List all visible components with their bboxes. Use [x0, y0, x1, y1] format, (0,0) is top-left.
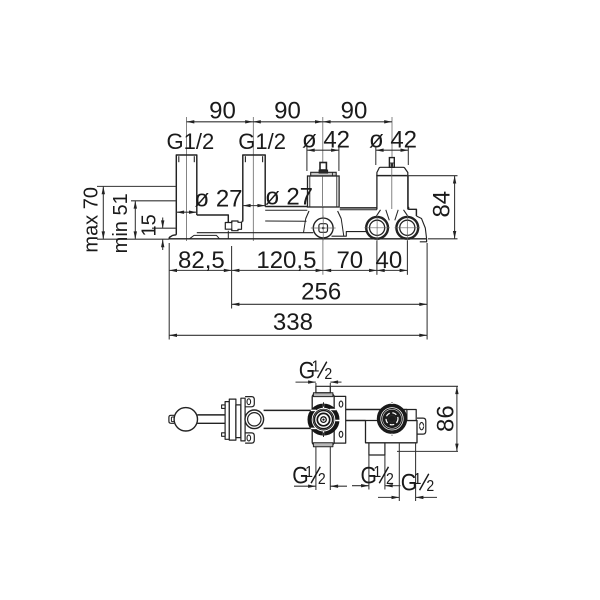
svg-text:ø 42: ø 42	[369, 126, 417, 153]
skirt cartridge2	[375, 210, 381, 219]
svg-text:2: 2	[426, 477, 434, 495]
dim o27 no.2 arrows	[243, 205, 265, 207]
label G1/2 bottom-left	[292, 462, 325, 489]
dim o42 no.1	[306, 146, 308, 171]
cartridge ring (big, bottom view)	[310, 402, 340, 437]
svg-text:1: 1	[312, 358, 320, 376]
leaders G1/2 bottom-left	[315, 447, 317, 490]
stem F tube	[264, 409, 313, 411]
svg-text:1: 1	[373, 463, 381, 481]
dim 90 span2	[253, 121, 323, 123]
svg-text:max 70: max 70	[81, 187, 103, 253]
dim 256	[232, 303, 428, 305]
labels top view	[81, 98, 456, 337]
dim 86	[456, 386, 458, 451]
svg-text:ø 27: ø 27	[265, 184, 313, 211]
body bottom step between circle1 and circle2	[332, 232, 367, 237]
svg-text:90: 90	[209, 98, 236, 125]
hex nipple detail	[225, 221, 241, 231]
svg-text:256: 256	[301, 278, 341, 305]
svg-text:90: 90	[274, 98, 301, 125]
dim 15 outside arrows	[162, 218, 164, 229]
svg-text:90: 90	[341, 98, 368, 125]
body bar left section top edge	[197, 215, 229, 223]
circle/outlet with square broach (middle outlet)	[311, 216, 336, 241]
skirt cartridge1	[306, 211, 309, 219]
cartridge U1 (left, ceramic cartridge side view)	[308, 163, 340, 208]
dim 40	[377, 269, 408, 271]
svg-text:338: 338	[273, 309, 313, 336]
ext line wall bottom	[97, 238, 169, 240]
svg-text:86: 86	[433, 405, 460, 432]
dim 90 span1	[187, 121, 254, 123]
svg-text:84: 84	[428, 191, 455, 218]
svg-text:15: 15	[139, 214, 161, 236]
ext line 15 top	[152, 227, 176, 229]
centerline pipe2	[252, 117, 254, 241]
svg-text:G1/2: G1/2	[238, 129, 286, 154]
ear bottom with slot	[245, 433, 254, 443]
ext line min51 top	[131, 200, 176, 202]
housing K upper-right block	[407, 410, 416, 421]
bottom step notch	[190, 235, 220, 238]
inlet ring no.2 (40 dim)	[395, 215, 421, 241]
dim 70	[323, 269, 377, 271]
svg-text:40: 40	[376, 247, 403, 274]
ext 84 top	[407, 175, 458, 177]
pipe G1/2 no.1	[176, 155, 197, 235]
ext line max70 top	[97, 185, 176, 187]
ext 84 bottom	[428, 238, 458, 240]
svg-text:min 51: min 51	[110, 193, 132, 253]
dim o27 no.1 arrows	[176, 211, 197, 213]
ear M with slot	[417, 418, 426, 434]
dim o42 no.2	[375, 146, 377, 165]
bar J	[346, 409, 407, 411]
ear top with slot	[245, 397, 254, 407]
dim 90 span3	[323, 121, 392, 123]
bracket H with slots	[334, 396, 346, 443]
port tab 1	[369, 443, 385, 455]
plate B	[229, 399, 236, 440]
lever stem	[197, 414, 225, 416]
body bar lower edge left of circle1	[197, 232, 313, 234]
svg-text:ø 42: ø 42	[302, 126, 350, 153]
dim 338	[169, 334, 427, 336]
svg-text:70: 70	[336, 247, 363, 274]
svg-text:1: 1	[305, 463, 313, 481]
svg-text:2: 2	[386, 470, 394, 488]
connection ring E	[245, 410, 264, 429]
pipe G1/2 no.2	[243, 155, 265, 222]
right wing plate	[406, 176, 408, 208]
lever ball	[174, 408, 197, 431]
connector C	[236, 405, 241, 438]
dim 120,5	[232, 269, 324, 271]
dim G1/2 top: ext + converging arrows	[315, 383, 317, 388]
body bottom outline	[169, 235, 427, 239]
housing K lower block	[366, 421, 418, 443]
G half labels bottom view	[292, 357, 459, 496]
dim min51	[134, 201, 136, 239]
dim max70	[102, 186, 104, 239]
body mid edges between nipple and cartridge1	[242, 221, 243, 223]
label G1/2 bottom-middle	[361, 462, 394, 489]
svg-text:1: 1	[414, 470, 422, 488]
ext lines bottom rows	[168, 243, 170, 340]
dim 84	[454, 176, 456, 239]
svg-text:82,5: 82,5	[178, 247, 225, 274]
leaders G1/2 bottom-right	[398, 443, 400, 501]
stem square on top	[316, 386, 330, 392]
dim 82,5	[169, 269, 231, 271]
cartridge U2 (right, side view with dome)	[377, 158, 408, 210]
svg-text:2: 2	[318, 470, 326, 488]
bracket plate D	[241, 398, 245, 441]
svg-text:ø 27: ø 27	[194, 186, 242, 213]
leaders G1/2 bottom-middle	[368, 455, 370, 490]
svg-text:120,5: 120,5	[256, 247, 316, 274]
central housing G	[312, 394, 334, 445]
ext 86 bottom	[397, 450, 458, 452]
svg-text:2: 2	[324, 365, 332, 383]
body top edge between cartridges	[340, 207, 377, 209]
ext 86 top (from stem)	[330, 385, 458, 387]
centerline cartridge2	[391, 117, 393, 157]
lever end clip	[169, 415, 174, 423]
flange plate A	[225, 402, 229, 440]
label G1/2 top	[299, 357, 332, 384]
svg-text:G1/2: G1/2	[167, 129, 215, 154]
centerline cartridge1	[322, 117, 324, 162]
right foot block	[420, 239, 427, 242]
centerline pipe1	[186, 117, 188, 241]
inlet ring (bottom view right)	[379, 402, 406, 436]
label G1/2 bottom-right	[401, 469, 434, 496]
inlet ring no.1 (70 dim)	[364, 215, 390, 241]
